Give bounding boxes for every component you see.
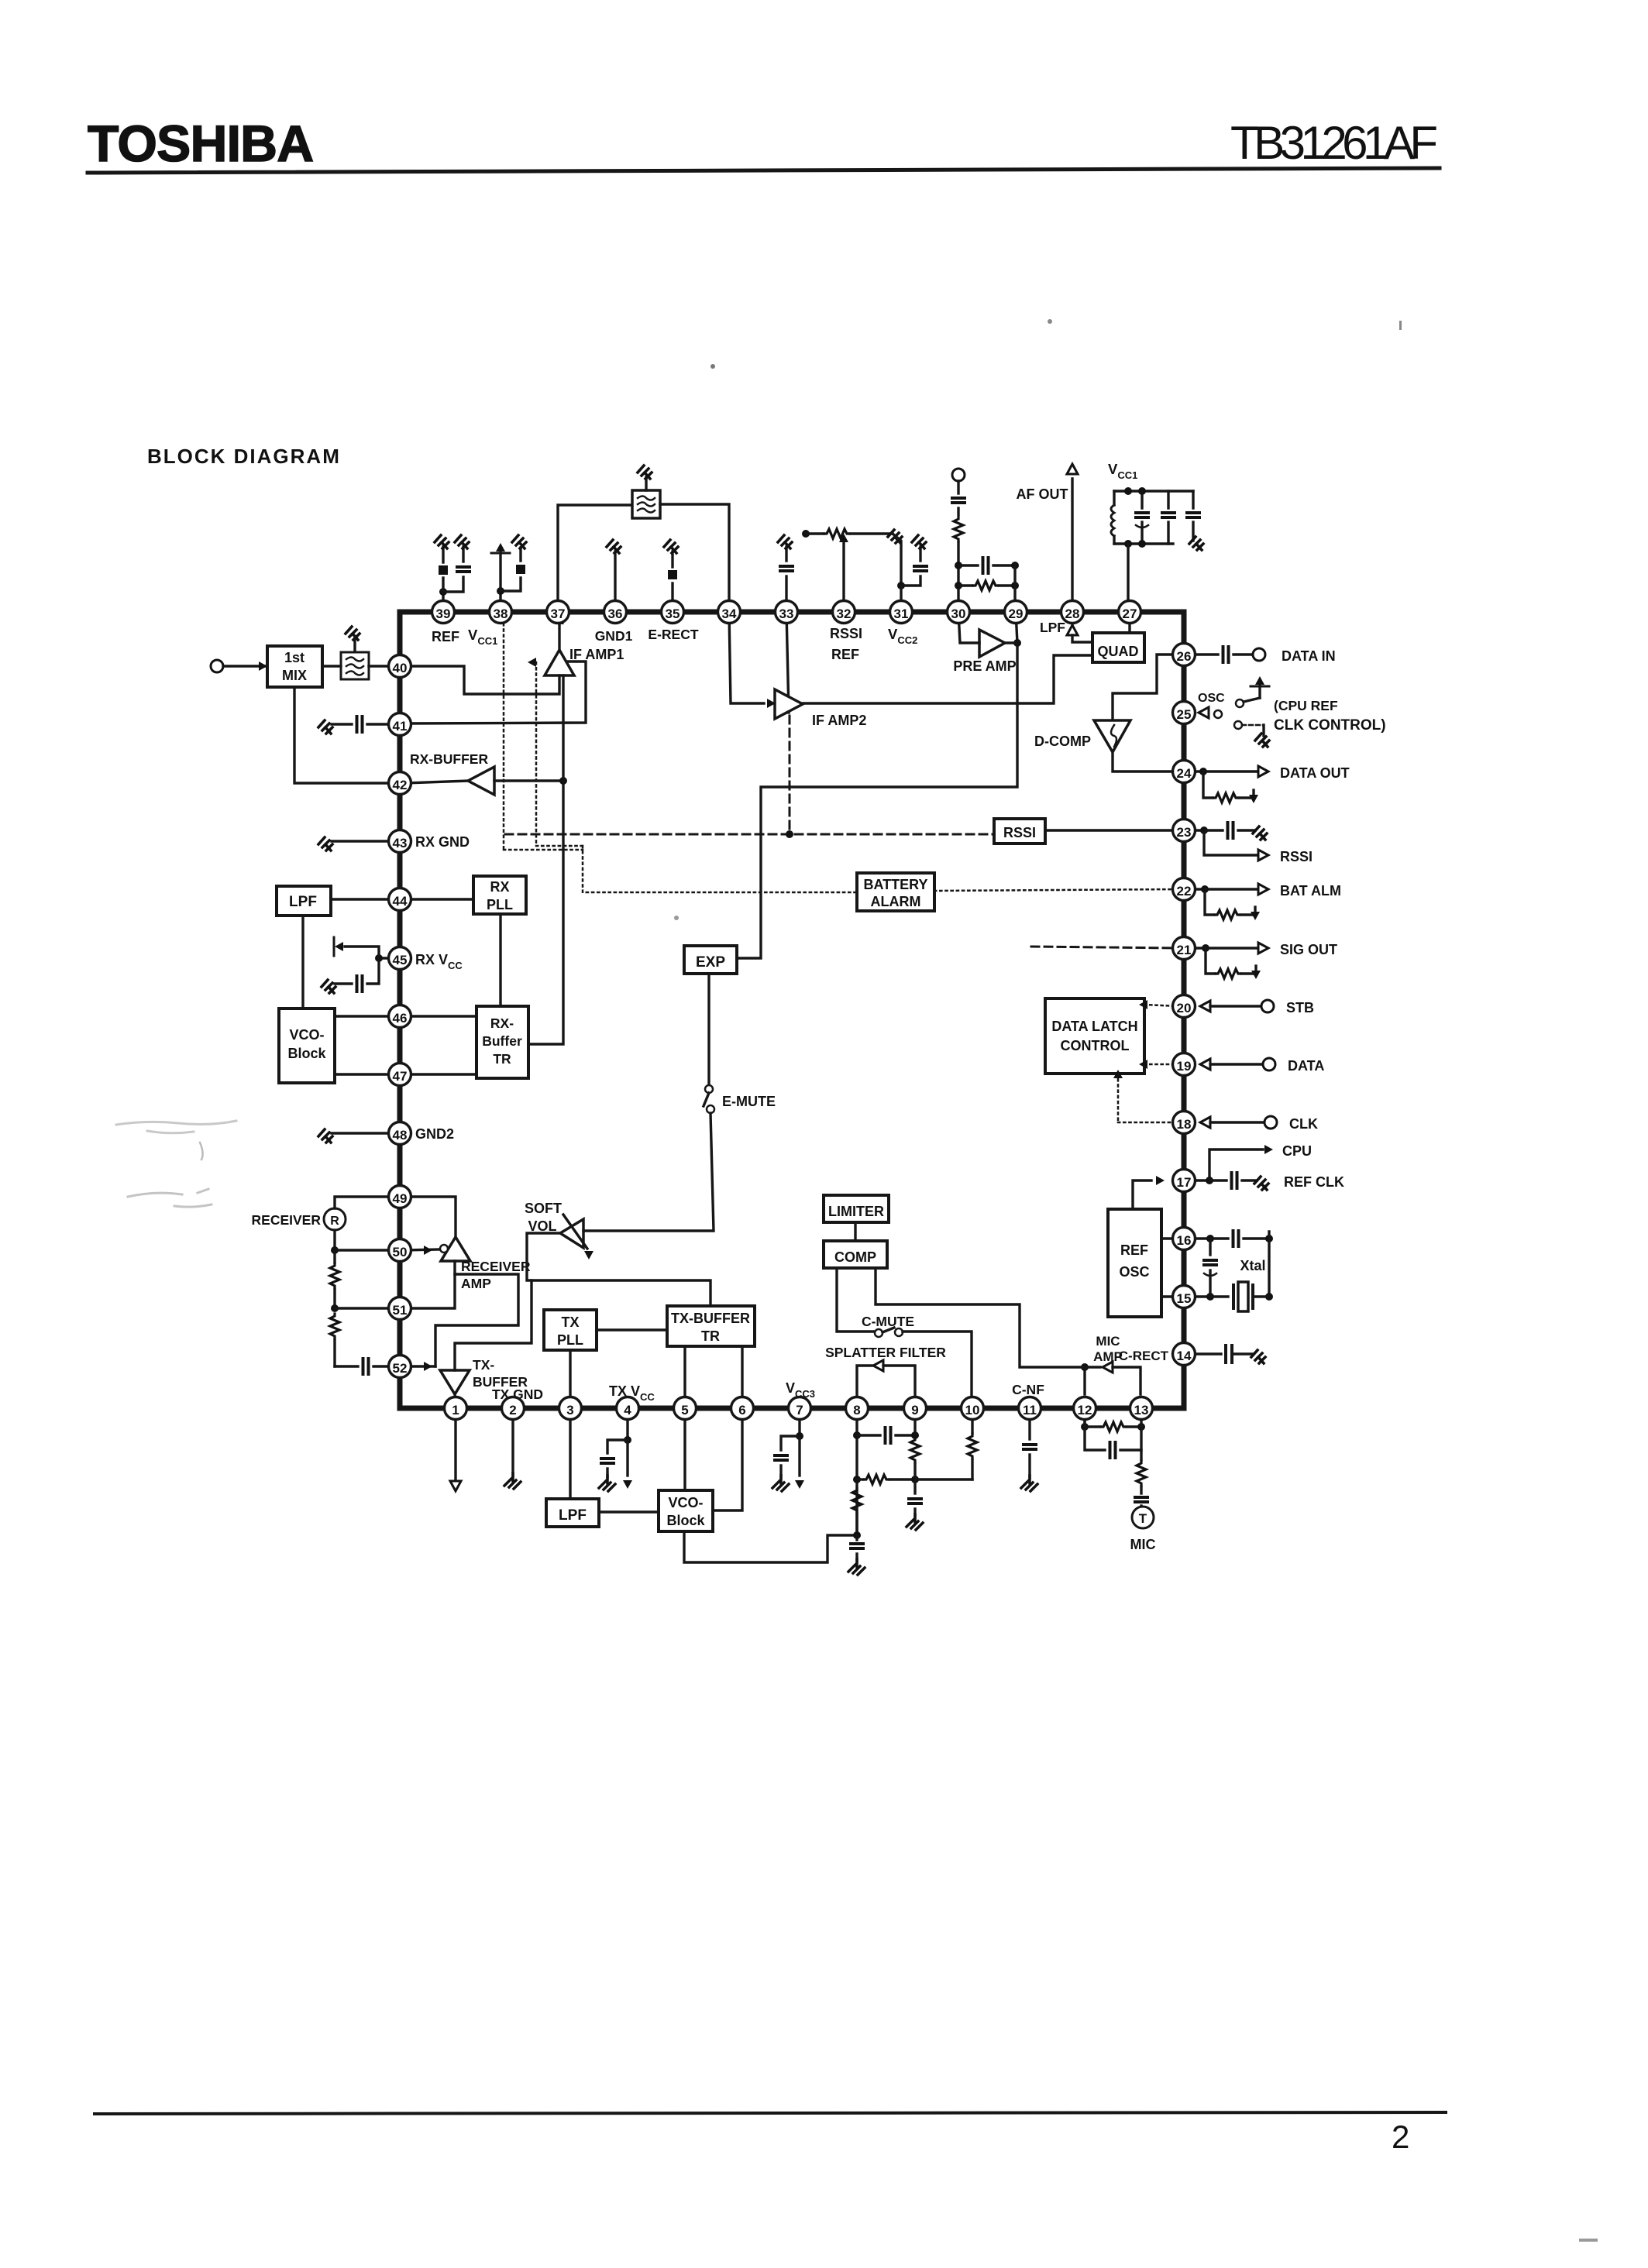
wire pin 16 xtal node: [1180, 1237, 1210, 1239]
dotted corner to battery alarm: [504, 849, 583, 851]
dotted wire data latch to pin 18: [1117, 1074, 1120, 1122]
svg-text:R: R: [330, 1215, 339, 1228]
pin 8: [846, 1397, 869, 1420]
wire pin 51 riser to receiver amp base: [405, 1261, 455, 1308]
dashed stub at pin 21: [1031, 947, 1178, 948]
svg-text:18: 18: [1177, 1117, 1192, 1132]
bypass capacitor to ground at VCC1: [1192, 491, 1194, 508]
ground above ceramic filter: [645, 477, 647, 490]
wire pin 24 to DATA OUT: [1180, 770, 1203, 772]
capacitor and ground below pin 9: [913, 1479, 916, 1493]
svg-text:IF AMP1: IF AMP1: [569, 647, 624, 662]
wire to pin 51: [335, 1307, 394, 1309]
OSC switch: [1214, 710, 1222, 718]
pin 33: [776, 601, 798, 624]
svg-text:Buffer: Buffer: [482, 1033, 522, 1049]
svg-text:51: 51: [393, 1303, 408, 1318]
svg-text:SOFT: SOFT: [525, 1201, 562, 1216]
terminal DATA: [1263, 1058, 1275, 1070]
svg-text:AMP: AMP: [461, 1276, 491, 1291]
capacitor with square above pin 38 right branch: [501, 578, 521, 591]
wire pin 15 to crystal: [1180, 1295, 1210, 1297]
svg-text:E-MUTE: E-MUTE: [722, 1094, 776, 1109]
block QUAD: [1092, 633, 1144, 662]
svg-text:3: 3: [566, 1403, 573, 1417]
terminal MIC: [1132, 1507, 1154, 1528]
svg-text:VCO-: VCO-: [669, 1495, 704, 1510]
wiper arrow from pin 32: [842, 542, 845, 603]
svg-text:12: 12: [1078, 1403, 1092, 1417]
svg-text:LPF: LPF: [289, 894, 317, 910]
pin 18: [1173, 1112, 1196, 1134]
pin 51: [389, 1297, 411, 1320]
wire EXP to E-MUTE switch: [707, 974, 710, 1084]
header rule: [88, 168, 1440, 173]
svg-text:RECEIVER: RECEIVER: [461, 1259, 531, 1274]
pin 30: [948, 601, 970, 624]
svg-text:52: 52: [393, 1361, 408, 1376]
svg-text:MIC: MIC: [1096, 1334, 1120, 1349]
block RSSI: [994, 819, 1045, 844]
svg-text:STB: STB: [1286, 1000, 1314, 1015]
switch E-MUTE: [705, 1085, 713, 1093]
wire IF AMP2 to QUAD: [803, 655, 1092, 703]
svg-text:32: 32: [837, 607, 852, 621]
quad tank top rail: [1114, 490, 1193, 492]
resistor pins 8-9 lower: [857, 1478, 863, 1480]
svg-text:CONTROL: CONTROL: [1061, 1038, 1130, 1053]
svg-text:C-MUTE: C-MUTE: [862, 1314, 914, 1329]
arrow RSSI: [1258, 850, 1268, 861]
receiver network wires: [333, 1230, 335, 1250]
mic amp direction arrow: [1103, 1362, 1113, 1373]
wire pin 26 to D-COMP: [1113, 655, 1178, 720]
mic amp wire above pins 12-13: [1083, 1367, 1085, 1394]
wire soft vol output to TX chain: [527, 1233, 710, 1306]
pin 50: [389, 1239, 411, 1262]
pin 3: [559, 1397, 582, 1420]
wire pin 34 to IF AMP2: [729, 612, 764, 703]
wire REF OSC to pin 17: [1133, 1180, 1151, 1209]
ground below pin 2: [511, 1417, 514, 1476]
resistor in pin 9 branch: [913, 1417, 916, 1435]
svg-text:31: 31: [894, 607, 909, 621]
pin 11: [1019, 1397, 1041, 1420]
svg-text:VCO-: VCO-: [290, 1027, 325, 1043]
pin 14: [1173, 1343, 1196, 1366]
svg-text:D-COMP: D-COMP: [1034, 734, 1091, 749]
mic amp loop pins 12-13: [1083, 1417, 1085, 1427]
pin 34: [718, 601, 741, 624]
svg-text:13: 13: [1134, 1403, 1149, 1417]
wire 1st MIX to filter: [322, 665, 341, 667]
terminal STB: [1261, 1000, 1274, 1012]
pin 21: [1173, 937, 1196, 960]
wire pin 20 to STB: [1210, 1005, 1261, 1007]
svg-text:Block: Block: [666, 1513, 705, 1528]
pin 36: [604, 601, 627, 624]
wire E-MUTE to SOFT VOL: [583, 1113, 714, 1231]
pin 35: [662, 601, 684, 624]
svg-text:14: 14: [1177, 1349, 1192, 1363]
svg-text:27: 27: [1123, 607, 1137, 621]
svg-text:40: 40: [393, 661, 408, 675]
supply arrow above pin 38: [499, 591, 501, 603]
capacitor and ground above pin 33: [785, 576, 787, 603]
svg-text:TR: TR: [701, 1328, 720, 1344]
svg-text:35: 35: [666, 607, 680, 621]
wire VCO 1 to pin 46: [335, 1015, 394, 1017]
ground above pin 36: [614, 552, 616, 603]
pin 40: [389, 655, 411, 678]
svg-text:GND1: GND1: [595, 628, 633, 644]
wire pin 17 node: [1180, 1179, 1209, 1181]
svg-text:BUFFER: BUFFER: [473, 1374, 528, 1390]
pin 20: [1173, 995, 1196, 1018]
wire COMP to mic amp node: [876, 1268, 1085, 1367]
svg-text:42: 42: [393, 778, 408, 792]
wire pin 29 long riser to EXP: [737, 612, 1017, 958]
wire ceramic filter to pin 34: [660, 504, 729, 603]
pin 5: [674, 1397, 697, 1420]
wire pin 37 up to ceramic filter: [558, 505, 632, 603]
wire LPF to pin 44: [331, 898, 394, 900]
wire pin 50 to receiver amp: [405, 1249, 439, 1250]
pin 28: [1061, 601, 1084, 624]
output arrow below pin 1: [454, 1417, 456, 1479]
pin 24: [1173, 761, 1196, 783]
switch C-MUTE: [875, 1329, 882, 1337]
svg-text:TX-BUFFER: TX-BUFFER: [671, 1311, 750, 1326]
wire pin 6 to VCO 2 right: [713, 1417, 742, 1510]
svg-text:47: 47: [393, 1069, 408, 1084]
wire pin 18 to CLK: [1210, 1121, 1264, 1123]
svg-text:COMP: COMP: [834, 1249, 876, 1265]
pin 26: [1173, 644, 1196, 666]
svg-text:TR: TR: [493, 1051, 511, 1067]
stray dot 3: [674, 916, 679, 920]
svg-text:11: 11: [1023, 1403, 1037, 1417]
wire RSSI to pin 23: [1045, 829, 1178, 831]
wire D-COMP to pin 24: [1113, 752, 1178, 771]
wire 1st MIX bottom to pin 42: [294, 687, 394, 783]
dotted wire BATTERY ALARM to pin 22: [934, 889, 1178, 891]
pin 43: [389, 830, 411, 853]
svg-text:LPF: LPF: [559, 1507, 587, 1524]
pin 7: [789, 1397, 811, 1420]
wire AF OUT to pin 28: [1071, 479, 1073, 603]
capacitor ground branch at pin 31: [901, 576, 920, 586]
svg-text:25: 25: [1177, 707, 1192, 722]
stray mark: [1579, 2239, 1598, 2242]
block TX PLL: [544, 1310, 597, 1350]
svg-text:ALARM: ALARM: [871, 894, 921, 909]
svg-text:44: 44: [393, 894, 408, 909]
pin 17: [1173, 1170, 1196, 1192]
svg-text:EXP: EXP: [696, 954, 725, 971]
block BATTERY ALARM: [857, 873, 934, 911]
svg-text:49: 49: [393, 1191, 408, 1206]
svg-text:RX-BUFFER: RX-BUFFER: [410, 751, 488, 767]
stray dot 2: [1048, 319, 1052, 324]
wire VCO 2 to pin 8 network: [684, 1531, 857, 1562]
stray dot 1: [710, 364, 715, 369]
amp SOFT VOL: [560, 1219, 583, 1248]
svg-text:GND2: GND2: [415, 1126, 454, 1142]
svg-text:REF: REF: [1120, 1242, 1148, 1258]
svg-text:TX-: TX-: [473, 1357, 494, 1373]
pin 25 input arrow: [1199, 707, 1209, 718]
svg-text:PLL: PLL: [557, 1332, 583, 1348]
svg-text:43: 43: [393, 836, 408, 850]
footer rule: [95, 2112, 1446, 2114]
terminal RF input: [211, 660, 223, 672]
pin 18 input arrow: [1200, 1117, 1210, 1128]
amp IF AMP1: [545, 650, 574, 675]
block REF OSC: [1108, 1209, 1161, 1317]
svg-text:Xtal: Xtal: [1240, 1258, 1265, 1273]
wire pin 12 stub: [1083, 1417, 1085, 1427]
svg-text:CPU: CPU: [1282, 1143, 1312, 1159]
wire pin 44 to RX PLL: [405, 898, 473, 900]
tank inductor: [1113, 491, 1115, 505]
pin 39: [432, 601, 455, 624]
stray tick mark: [1399, 321, 1402, 330]
svg-text:34: 34: [722, 607, 737, 621]
block LIMITER: [824, 1195, 889, 1222]
svg-text:29: 29: [1009, 607, 1024, 621]
resistor receiver 2: [330, 1314, 339, 1338]
wire PRE AMP output: [1005, 641, 1017, 644]
wire pin 27 to QUAD: [1128, 612, 1130, 633]
wire pin 13 down: [1140, 1417, 1142, 1460]
amp PRE AMP: [979, 630, 1005, 657]
resistor below pin 8: [852, 1488, 862, 1513]
pin 12: [1074, 1397, 1096, 1420]
svg-text:LIMITER: LIMITER: [828, 1204, 884, 1219]
tank capacitor 2: [1167, 491, 1169, 508]
pin 19: [1173, 1053, 1196, 1076]
svg-text:45: 45: [393, 953, 408, 967]
block VCO 1: [279, 1009, 335, 1083]
pulldown resistor at pin 21: [1206, 948, 1215, 974]
svg-text:4: 4: [624, 1403, 631, 1417]
wire to CPU arrow: [1209, 1149, 1263, 1180]
pin 25: [1173, 702, 1196, 724]
pin 48: [389, 1122, 411, 1145]
resistor below pin 13: [1137, 1461, 1146, 1486]
switch lower contact: [1234, 721, 1242, 729]
svg-text:28: 28: [1065, 607, 1080, 621]
svg-text:RECEIVER: RECEIVER: [252, 1212, 322, 1228]
pin 44: [389, 888, 411, 911]
svg-text:21: 21: [1177, 943, 1192, 957]
svg-text:CLK CONTROL): CLK CONTROL): [1274, 717, 1386, 734]
pin 31: [890, 601, 913, 624]
svg-text:(CPU REF: (CPU REF: [1274, 698, 1338, 713]
svg-text:C-NF: C-NF: [1012, 1382, 1044, 1397]
tank capacitor 1: [1141, 491, 1143, 508]
capacitor branch above pin 39 (right): [443, 577, 463, 592]
svg-text:RSSI: RSSI: [830, 626, 862, 641]
svg-text:39: 39: [436, 607, 451, 621]
svg-text:24: 24: [1177, 766, 1192, 781]
terminal CLK: [1264, 1116, 1277, 1129]
capacitor below terminal: [957, 481, 959, 493]
capacitor across pins 16-15: [1209, 1239, 1211, 1255]
svg-text:BLOCK DIAGRAM: BLOCK DIAGRAM: [147, 445, 341, 468]
svg-text:RX GND: RX GND: [415, 834, 470, 850]
svg-text:MIC: MIC: [1130, 1537, 1156, 1552]
terminal AF OUT above pin 28: [1067, 464, 1078, 474]
pin 15: [1173, 1286, 1196, 1308]
wire riser to IF AMP1 underside: [562, 675, 564, 781]
svg-text:AF OUT: AF OUT: [1017, 486, 1068, 502]
svg-text:30: 30: [951, 607, 966, 621]
svg-text:TOSHIBA: TOSHIBA: [88, 115, 316, 172]
block DATA LATCH CONTROL: [1045, 998, 1144, 1074]
amp RECEIVER AMP: [441, 1237, 470, 1261]
wire COMP to C-MUTE switch: [837, 1268, 874, 1332]
svg-text:VCC1: VCC1: [468, 627, 497, 647]
wire LIMITER to COMP: [854, 1222, 856, 1241]
svg-text:DATA OUT: DATA OUT: [1280, 765, 1350, 781]
wire C-MUTE to pin 10: [903, 1332, 972, 1402]
svg-text:TB31261AF: TB31261AF: [1230, 117, 1438, 169]
dotted wire pin 20 to data latch: [1144, 1005, 1178, 1006]
amp TX-BUFFER: [440, 1370, 470, 1394]
wire pin 22 to BAT ALM: [1180, 888, 1205, 890]
svg-text:RX-: RX-: [490, 1015, 514, 1031]
svg-text:50: 50: [393, 1245, 408, 1259]
svg-text:9: 9: [911, 1403, 918, 1417]
capacitor to REF CLK ground: [1209, 1179, 1227, 1181]
svg-text:RSSI: RSSI: [1003, 825, 1036, 840]
block 1st MIX: [267, 646, 322, 687]
svg-text:OSC: OSC: [1119, 1264, 1149, 1280]
supply arrows left of pin 45: [379, 957, 394, 959]
block LPF tx: [546, 1499, 599, 1527]
svg-text:26: 26: [1177, 649, 1192, 664]
block RX-Buffer TR: [477, 1006, 528, 1078]
wire REF OSC to pin 16: [1161, 1237, 1178, 1239]
wire pin 3 to LPF: [569, 1417, 571, 1499]
wire pin 47 to RX-Buffer TR: [405, 1073, 477, 1075]
arrow SIG OUT: [1258, 943, 1268, 954]
svg-text:PRE AMP: PRE AMP: [953, 658, 1016, 674]
svg-text:5: 5: [681, 1403, 688, 1417]
pin 42: [389, 772, 411, 795]
svg-text:OSC: OSC: [1198, 692, 1225, 705]
pin 22: [1173, 878, 1196, 901]
svg-text:TX: TX: [561, 1314, 579, 1330]
capacitor below pin 13: [1135, 1497, 1147, 1502]
wire RX PLL to RX-Buffer TR: [499, 914, 501, 1006]
pin 27: [1119, 601, 1141, 624]
faint pencil marks: [116, 1121, 236, 1133]
wire LPF down to VCO 1: [301, 916, 304, 1009]
svg-text:6: 6: [738, 1403, 745, 1417]
svg-text:7: 7: [796, 1403, 803, 1417]
feedback resistor pins 30-29: [955, 582, 962, 589]
pin 46: [389, 1005, 411, 1028]
amp IF AMP2: [775, 689, 803, 719]
pin 9: [904, 1397, 927, 1420]
IC package outline: [400, 612, 1184, 1408]
wire pot to pin 31 branch: [893, 534, 901, 586]
block VCO 2: [659, 1490, 713, 1531]
crystal symbol: [1233, 1285, 1253, 1308]
tank bottom rail: [1114, 542, 1173, 545]
wire bias link pins 51-52: [435, 1274, 518, 1366]
wire pin 26 to DATA IN: [1180, 653, 1218, 655]
svg-text:REF: REF: [831, 647, 859, 662]
svg-text:23: 23: [1177, 825, 1192, 840]
capacitor pins 12-13: [1085, 1427, 1105, 1450]
dotted VCC line 2: [528, 658, 536, 667]
wire pin 23 capacitor to ground arrow: [1180, 829, 1204, 831]
svg-text:37: 37: [551, 607, 566, 621]
capacitor and ground below pin 8: [855, 1535, 858, 1540]
svg-text:CLK: CLK: [1289, 1116, 1318, 1132]
wire TX PLL to pin 3: [569, 1350, 571, 1402]
arrow DATA OUT: [1258, 766, 1268, 777]
wire VCO 1 to pin 47: [335, 1073, 394, 1075]
wire pin 11 capacitor ground: [1028, 1417, 1030, 1439]
amp D-COMP: [1094, 720, 1130, 752]
block RX PLL: [473, 876, 526, 914]
wire pin 33 stub: [786, 612, 789, 713]
svg-text:22: 22: [1177, 884, 1192, 899]
capacitor to pin 52: [335, 1365, 358, 1367]
wire pin 21 to SIG OUT: [1180, 947, 1206, 949]
svg-text:36: 36: [608, 607, 623, 621]
wire pin 40 to IF AMP1 input: [405, 666, 559, 694]
resistor pins 12-13: [1085, 1425, 1100, 1428]
pin 1: [445, 1397, 467, 1420]
svg-text:IF AMP2: IF AMP2: [812, 713, 866, 728]
svg-text:16: 16: [1177, 1233, 1192, 1248]
svg-text:MIX: MIX: [282, 668, 307, 683]
pin 19 input arrow: [1200, 1059, 1210, 1070]
pin 49: [389, 1186, 411, 1208]
wire pin 7 network: [798, 1417, 800, 1436]
svg-text:REF CLK: REF CLK: [1284, 1174, 1344, 1190]
switch upper contact to arrow: [1258, 685, 1261, 698]
wire pin 14 capacitor to ground: [1180, 1352, 1221, 1355]
wire feedback to pin 29: [1013, 564, 1016, 603]
svg-text:RX: RX: [490, 879, 509, 895]
svg-text:E-RECT: E-RECT: [648, 627, 698, 642]
svg-text:REF: REF: [432, 629, 459, 644]
ceramic filter between pins 37 and 34: [632, 490, 660, 518]
pin 8 lower network: [855, 1417, 858, 1535]
capacitor square above pin 35: [671, 583, 673, 603]
pin 13: [1130, 1397, 1153, 1420]
svg-text:C-RECT: C-RECT: [1119, 1349, 1169, 1363]
svg-text:SPLATTER FILTER: SPLATTER FILTER: [825, 1345, 946, 1360]
bandpass filter after 1st MIX: [341, 652, 369, 679]
block COMP: [824, 1241, 887, 1268]
wire REF OSC to pin 15: [1161, 1295, 1178, 1297]
resistor receiver 1: [333, 1250, 335, 1263]
amp RX-BUFFER: [468, 767, 494, 795]
wire pin 30 to PRE AMP: [958, 612, 979, 643]
dashed RSSI sense line: [505, 833, 994, 836]
wire RX-BUFFER to pin 42: [405, 781, 468, 783]
wire tank to pin 27: [1127, 544, 1129, 603]
xtal bus vertical: [1268, 1232, 1270, 1297]
